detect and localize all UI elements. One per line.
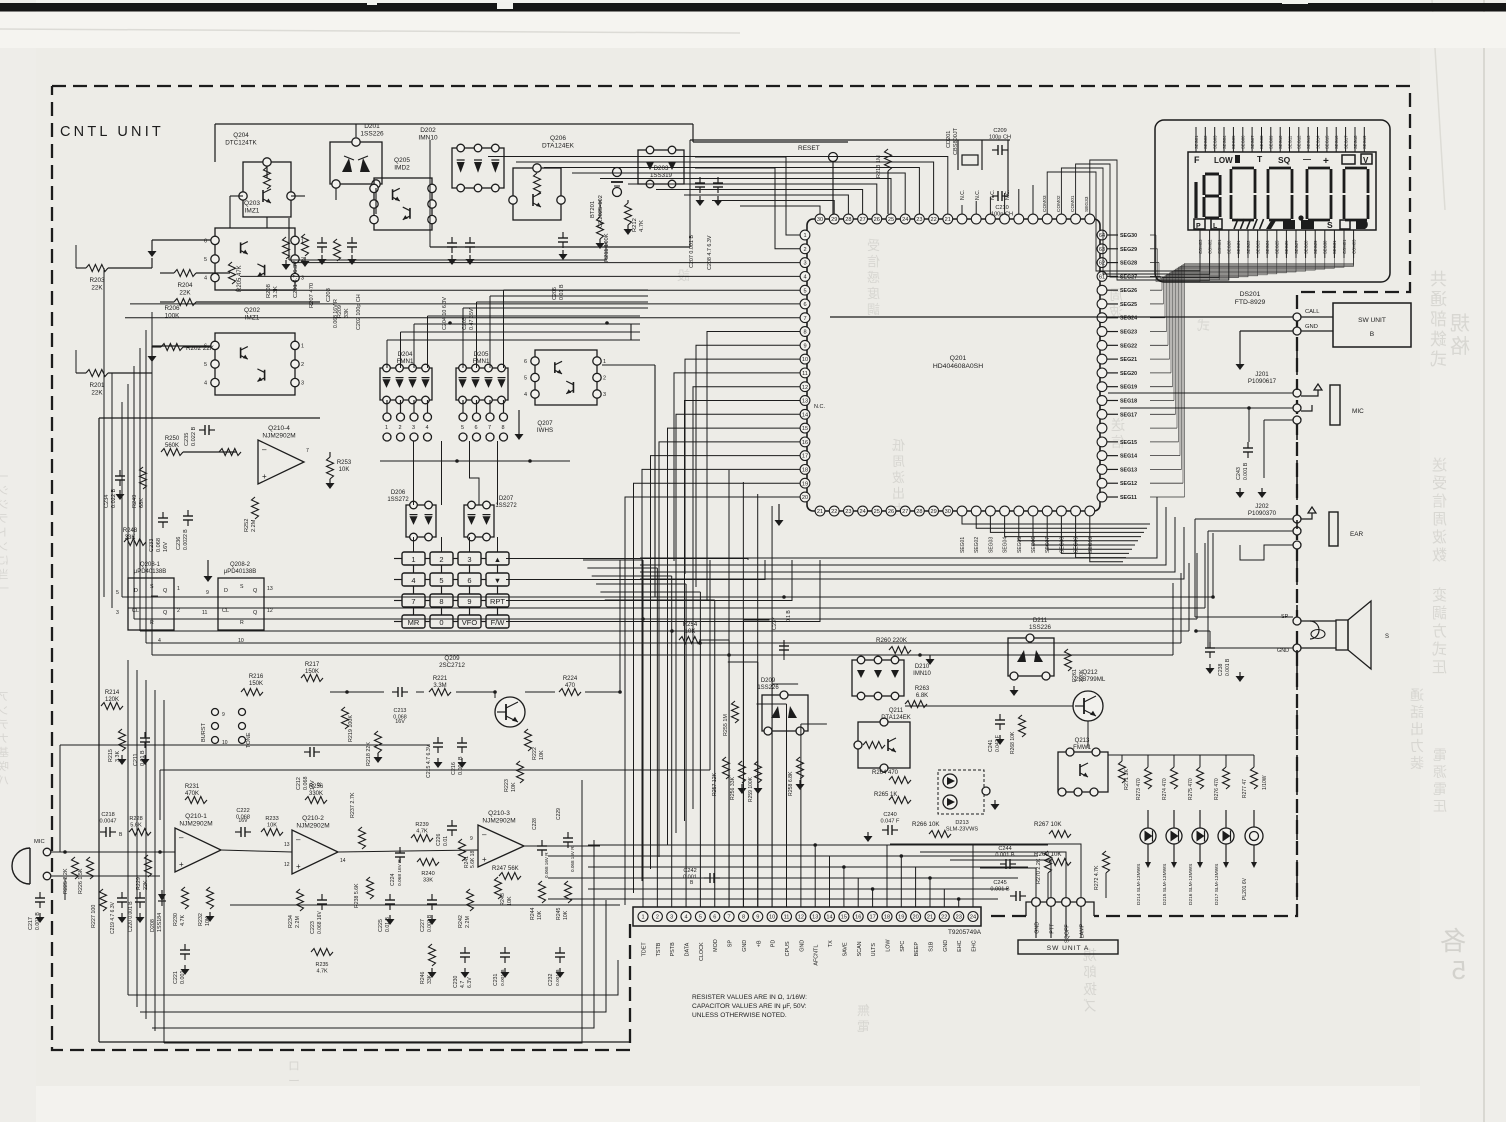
svg-text:12: 12 xyxy=(802,385,808,391)
svg-text:方: 方 xyxy=(1432,623,1447,640)
svg-text:62: 62 xyxy=(1099,261,1105,267)
IC Q201 top pins xyxy=(815,214,1095,224)
svg-text:調: 調 xyxy=(867,302,880,317)
svg-text:R258 6.8K: R258 6.8K xyxy=(788,771,794,796)
svg-text:LAMP: LAMP xyxy=(1080,923,1086,938)
capacitor C205 0.47 35V xyxy=(469,237,471,243)
transistor cluster Q205 IMD2 xyxy=(374,178,432,230)
diode pair D209 1SS226 xyxy=(762,695,808,731)
svg-text:15: 15 xyxy=(841,915,847,921)
svg-text:R233: R233 xyxy=(265,816,278,822)
svg-text:シ: シ xyxy=(0,485,9,497)
svg-text:0.022 B: 0.022 B xyxy=(191,426,197,446)
svg-text:—: — xyxy=(1303,155,1311,164)
svg-text:SEG03: SEG03 xyxy=(1213,135,1218,149)
svg-text:LOW: LOW xyxy=(1214,156,1233,165)
svg-text:2.2M: 2.2M xyxy=(251,519,257,532)
svg-text:D202: D202 xyxy=(420,127,436,134)
speaker SP xyxy=(1293,617,1301,625)
resistor R251 100K xyxy=(219,449,241,456)
svg-text:D204: D204 xyxy=(398,351,413,358)
transistor Q211 DTA124EK xyxy=(858,722,910,768)
svg-text:SAVE: SAVE xyxy=(842,942,848,956)
resistor R221 3.3M xyxy=(429,689,451,696)
svg-text:SP: SP xyxy=(728,940,734,948)
svg-text:ロ: ロ xyxy=(288,1059,300,1073)
svg-text:感: 感 xyxy=(867,270,880,285)
svg-text:SEG08: SEG08 xyxy=(1259,135,1264,149)
svg-text:9: 9 xyxy=(756,915,759,921)
svg-text:8: 8 xyxy=(742,915,745,921)
svg-text:23: 23 xyxy=(916,217,922,223)
svg-text:150K: 150K xyxy=(305,669,319,675)
svg-text:9: 9 xyxy=(803,343,806,349)
svg-text:R245: R245 xyxy=(556,907,562,920)
svg-text:Q: Q xyxy=(163,588,168,594)
capacitor C216 0.001 B xyxy=(461,737,463,743)
svg-text:0.001 B: 0.001 B xyxy=(1225,658,1231,676)
svg-text:C202 100p CH: C202 100p CH xyxy=(356,294,362,330)
svg-text:周: 周 xyxy=(1432,511,1447,528)
transistor Q209 2SC2712 xyxy=(495,697,525,727)
svg-text:R255 1M: R255 1M xyxy=(723,714,729,736)
svg-text:Q210-1: Q210-1 xyxy=(185,813,207,820)
svg-text:R246: R246 xyxy=(420,971,426,984)
svg-text:R202 22K: R202 22K xyxy=(186,345,215,352)
svg-text:C232: C232 xyxy=(548,973,554,986)
svg-text:10K: 10K xyxy=(539,750,545,760)
svg-text:2.2M: 2.2M xyxy=(465,916,471,928)
svg-text:SEG15: SEG15 xyxy=(1120,440,1137,446)
svg-text:力: 力 xyxy=(1410,738,1424,754)
transistor Q213 FMW1 xyxy=(1058,752,1108,792)
svg-text:R203: R203 xyxy=(89,277,105,284)
resistor R245 10K xyxy=(565,881,572,903)
svg-text:R265 1K: R265 1K xyxy=(874,792,897,798)
svg-text:3: 3 xyxy=(301,381,304,387)
svg-text:470K: 470K xyxy=(185,791,199,797)
svg-text:電: 電 xyxy=(1433,781,1447,797)
svg-text:3: 3 xyxy=(467,555,471,564)
svg-text:SEG18: SEG18 xyxy=(1120,398,1137,404)
svg-text:SEG23: SEG23 xyxy=(1255,240,1260,254)
capacitor C225 0.01 xyxy=(389,894,391,900)
svg-text:0.0047: 0.0047 xyxy=(99,819,116,825)
svg-text:P1090370: P1090370 xyxy=(1248,510,1277,517)
svg-text:22K: 22K xyxy=(179,289,191,296)
svg-text:格: 格 xyxy=(1450,335,1470,358)
svg-text:C240: C240 xyxy=(883,812,896,818)
svg-text:30: 30 xyxy=(817,217,823,223)
svg-text:C234: C234 xyxy=(104,495,110,508)
svg-text:R244: R244 xyxy=(530,907,536,920)
svg-text:0.01 B: 0.01 B xyxy=(559,284,565,300)
svg-text:電: 電 xyxy=(1433,747,1447,763)
svg-text:SEG09: SEG09 xyxy=(1269,135,1274,149)
wire SW unit A risers xyxy=(890,844,1081,898)
svg-text:7: 7 xyxy=(803,316,806,322)
svg-text:R252: R252 xyxy=(244,519,250,532)
svg-text:9: 9 xyxy=(206,590,209,596)
ground symbols top area xyxy=(321,255,323,259)
svg-text:Q212: Q212 xyxy=(1082,669,1098,676)
dashed CNTL UNIT border xyxy=(52,86,1410,1050)
svg-text:F: F xyxy=(1194,155,1200,165)
capacitor C211 0.01 B xyxy=(144,732,146,738)
svg-text:SEG11: SEG11 xyxy=(1120,495,1137,501)
svg-text:ン: ン xyxy=(0,705,9,717)
svg-text:R221: R221 xyxy=(433,676,448,682)
capacitor C219 4.7 6.3V xyxy=(121,892,123,898)
resistor R254 10K xyxy=(679,637,701,644)
svg-text:20: 20 xyxy=(912,915,918,921)
svg-text:RESISTER VALUES ARE IN Ω, 1/16: RESISTER VALUES ARE IN Ω, 1/16W: xyxy=(692,994,807,1001)
wire SP runs xyxy=(1195,616,1293,618)
svg-text:Q209: Q209 xyxy=(444,655,460,662)
svg-text:パ: パ xyxy=(0,774,9,787)
resistor R243 10K xyxy=(495,877,502,899)
svg-text:R212: R212 xyxy=(632,218,638,232)
LCD digit 8 #1 xyxy=(1232,167,1254,170)
svg-text:C229: C229 xyxy=(556,808,562,820)
diode D208 1SS184 xyxy=(158,894,166,901)
svg-text:18: 18 xyxy=(802,468,808,474)
svg-text:R223: R223 xyxy=(504,779,510,792)
svg-text:話: 話 xyxy=(1410,704,1424,720)
svg-text:8: 8 xyxy=(803,330,806,336)
svg-text:17: 17 xyxy=(869,915,875,921)
svg-text:16V: 16V xyxy=(163,542,169,552)
svg-text:Q211: Q211 xyxy=(889,708,904,714)
svg-text:圧: 圧 xyxy=(1433,798,1447,814)
svg-text:1: 1 xyxy=(385,425,388,431)
svg-text:R209: R209 xyxy=(337,305,343,318)
svg-text:μPD40138B: μPD40138B xyxy=(134,569,166,575)
svg-text:MIC: MIC xyxy=(1352,408,1364,415)
svg-text:SEG13: SEG13 xyxy=(1120,467,1137,473)
svg-text:2: 2 xyxy=(399,425,402,431)
svg-text:鉄: 鉄 xyxy=(1430,330,1447,349)
LEDs D214-D217 SLM-13MWS xyxy=(1136,810,1234,905)
svg-text:4.7: 4.7 xyxy=(460,981,466,988)
resistor R259 100K xyxy=(755,761,762,783)
svg-text:10K: 10K xyxy=(339,467,350,473)
resistor R248 33K xyxy=(124,539,146,546)
svg-text:ジ: ジ xyxy=(0,499,9,511)
svg-text:+: + xyxy=(482,855,487,864)
svg-text:TSTB: TSTB xyxy=(656,942,662,956)
svg-text:CALL: CALL xyxy=(1305,309,1320,315)
svg-text:J202: J202 xyxy=(1255,503,1269,510)
svg-text:R224: R224 xyxy=(563,676,578,682)
SW UNIT A box xyxy=(1018,940,1118,954)
svg-text:TX: TX xyxy=(828,940,834,947)
svg-text:AFCNTL: AFCNTL xyxy=(814,945,820,966)
svg-text:R253: R253 xyxy=(337,460,352,466)
resistor inside Q204 xyxy=(264,167,271,189)
svg-text:ン: ン xyxy=(0,541,9,553)
svg-text:共: 共 xyxy=(1430,270,1447,289)
op-amp Q210-4 NJM2902M xyxy=(258,440,304,484)
svg-text:4: 4 xyxy=(426,425,429,431)
svg-text:各: 各 xyxy=(1440,926,1466,956)
wires top-right COM pins xyxy=(1047,160,1229,280)
svg-text:0.068 16V R: 0.068 16V R xyxy=(570,846,575,872)
capacitor C213 0.068 16V xyxy=(392,691,398,693)
transistor Q204 DTC124TK xyxy=(243,162,291,217)
svg-text:源: 源 xyxy=(1433,764,1447,780)
svg-text:Q205: Q205 xyxy=(394,157,410,164)
wire LED bus xyxy=(1121,755,1123,761)
svg-text:22: 22 xyxy=(831,509,837,515)
capacitor C206 0.01 B xyxy=(562,232,564,238)
svg-text:変: 変 xyxy=(1432,587,1447,604)
svg-text:15: 15 xyxy=(802,426,808,432)
svg-text:R219 100K: R219 100K xyxy=(348,715,354,742)
svg-text:4: 4 xyxy=(411,576,415,585)
svg-text:8: 8 xyxy=(502,425,505,431)
svg-text:TDET: TDET xyxy=(642,942,648,957)
resistor R258 6.8K xyxy=(797,757,804,779)
svg-text:+: + xyxy=(179,860,184,869)
svg-text:22: 22 xyxy=(941,915,947,921)
resistor R244 10K xyxy=(539,881,546,903)
svg-text:SW UNIT A: SW UNIT A xyxy=(1047,945,1090,952)
svg-text:咲: 咲 xyxy=(0,759,9,773)
svg-text:16: 16 xyxy=(802,440,808,446)
svg-text:規: 規 xyxy=(1450,312,1470,335)
svg-text:SEG30: SEG30 xyxy=(1323,240,1328,254)
wire right mid links xyxy=(783,640,785,660)
svg-text:Q207: Q207 xyxy=(537,420,553,427)
svg-text:送: 送 xyxy=(1432,457,1447,474)
resistor R253 10K xyxy=(327,457,334,479)
svg-text:式: 式 xyxy=(1430,350,1447,369)
svg-text:63: 63 xyxy=(1099,247,1105,253)
capacitor C204 10 6.3V xyxy=(451,237,453,243)
svg-text:IMN10: IMN10 xyxy=(913,671,931,677)
LED pair D213 SLM-23VWS xyxy=(938,770,984,814)
svg-text:22K: 22K xyxy=(91,389,103,396)
resistor R203 22K xyxy=(86,265,108,272)
wire C209 C210 to IC xyxy=(1007,150,1009,196)
svg-text:C218: C218 xyxy=(101,812,114,818)
svg-text:μPD40138B: μPD40138B xyxy=(224,569,256,575)
svg-text:13: 13 xyxy=(267,586,273,592)
svg-text:1: 1 xyxy=(301,343,304,349)
svg-text:SEG26: SEG26 xyxy=(1120,288,1137,294)
wire MIC runs xyxy=(1108,392,1293,394)
svg-text:12: 12 xyxy=(267,608,273,614)
svg-text:低: 低 xyxy=(892,438,905,453)
svg-text:BEEP: BEEP xyxy=(914,942,920,957)
transistor cluster Q207 IWHS xyxy=(535,350,597,405)
svg-text:IMN10: IMN10 xyxy=(418,135,438,142)
D204 keypad column pins xyxy=(383,400,432,441)
svg-text:R247 56K: R247 56K xyxy=(492,866,519,872)
svg-text:IWHS: IWHS xyxy=(537,427,553,434)
GND line to SW UNIT B xyxy=(1293,327,1301,335)
svg-text:R263: R263 xyxy=(915,686,930,692)
svg-text:出: 出 xyxy=(892,486,905,501)
svg-text:S: S xyxy=(1327,220,1333,230)
svg-text:3: 3 xyxy=(603,392,606,398)
svg-text:GND: GND xyxy=(742,940,748,952)
svg-text:R228: R228 xyxy=(129,816,142,822)
svg-text:NJM2902M: NJM2902M xyxy=(296,823,329,830)
svg-text:BURST: BURST xyxy=(201,722,207,742)
svg-text:1: 1 xyxy=(411,555,415,564)
svg-text:6.8K: 6.8K xyxy=(916,693,928,699)
svg-text:1SS184: 1SS184 xyxy=(157,913,163,932)
svg-text:PSTB: PSTB xyxy=(670,942,676,956)
svg-text:PD: PD xyxy=(771,940,777,948)
svg-text:9: 9 xyxy=(470,836,473,842)
wire ribbon drops to lower buses xyxy=(640,497,1184,579)
diode D211 1SS226 xyxy=(1008,638,1054,676)
capacitor C221 0.001 B xyxy=(184,944,186,950)
svg-text:SLM-23VWS: SLM-23VWS xyxy=(946,827,979,833)
svg-text:3.3M: 3.3M xyxy=(433,683,446,689)
svg-text:CL: CL xyxy=(132,608,139,614)
svg-text:5: 5 xyxy=(1452,955,1466,985)
svg-text:COM02: COM02 xyxy=(1207,239,1212,254)
svg-text:12: 12 xyxy=(798,915,804,921)
svg-text:R276 470: R276 470 xyxy=(1214,778,1220,800)
scan black top bar xyxy=(0,3,1506,12)
resistor R241 5.6K xyxy=(459,839,466,861)
svg-text:▼: ▼ xyxy=(494,576,501,585)
svg-text:7: 7 xyxy=(488,425,491,431)
svg-text:R217: R217 xyxy=(305,662,320,668)
svg-text:S: S xyxy=(1385,634,1389,640)
svg-text:T9205749A: T9205749A xyxy=(948,929,982,936)
svg-text:式: 式 xyxy=(1432,641,1447,658)
svg-text:13: 13 xyxy=(284,842,290,848)
resistor R240 33K xyxy=(417,859,439,866)
svg-text:1: 1 xyxy=(803,233,806,239)
wire oscillator links xyxy=(957,140,959,150)
svg-text:29: 29 xyxy=(930,509,936,515)
svg-text:C228: C228 xyxy=(532,818,538,830)
resistor R237 2.7K xyxy=(359,827,366,849)
SW unit A pin bump xyxy=(1026,902,1094,916)
svg-text:1SS226: 1SS226 xyxy=(360,131,384,138)
svg-text:MIC: MIC xyxy=(34,839,45,845)
wire D201 links xyxy=(355,124,357,137)
wire audio long return xyxy=(160,769,710,771)
svg-text:0.047 F: 0.047 F xyxy=(881,819,901,825)
svg-text:R270 2.2K: R270 2.2K xyxy=(1036,858,1042,884)
svg-text:受: 受 xyxy=(1432,475,1447,492)
svg-text:SEG28: SEG28 xyxy=(1303,240,1308,254)
svg-text:SEG18: SEG18 xyxy=(1353,135,1358,149)
svg-text:2: 2 xyxy=(439,555,443,564)
svg-text:1/10W: 1/10W xyxy=(1262,775,1268,790)
svg-text:通: 通 xyxy=(1410,687,1424,703)
svg-text:ULTS: ULTS xyxy=(871,943,877,957)
resistor R255 1M xyxy=(732,701,739,723)
resistor R226 1.5K xyxy=(87,857,94,879)
svg-text:C223: C223 xyxy=(310,921,316,934)
connector J/P strip 24-pin xyxy=(633,907,981,926)
svg-text:560K: 560K xyxy=(165,443,179,449)
svg-text:14: 14 xyxy=(340,858,346,864)
svg-text:度: 度 xyxy=(867,286,880,301)
svg-text:RPT: RPT xyxy=(490,597,505,606)
svg-text:R250: R250 xyxy=(165,436,180,442)
svg-text:Q208-1: Q208-1 xyxy=(140,562,161,568)
svg-text:波: 波 xyxy=(892,470,905,485)
svg-text:27: 27 xyxy=(859,217,865,223)
svg-text:21: 21 xyxy=(817,509,823,515)
svg-text:SEG02: SEG02 xyxy=(974,537,980,553)
capacitor C228 0.068 16V R xyxy=(541,840,543,846)
svg-text:C209: C209 xyxy=(993,128,1006,134)
svg-text:5: 5 xyxy=(439,576,443,585)
svg-text:N.C.: N.C. xyxy=(814,404,825,410)
svg-text:R272 4.7K: R272 4.7K xyxy=(1094,865,1100,890)
resistor R232 10K xyxy=(207,887,214,909)
capacitor C237 0.1 B xyxy=(783,640,785,646)
wire left verticals xyxy=(103,268,105,597)
svg-text:基: 基 xyxy=(0,746,9,759)
svg-text:3: 3 xyxy=(412,425,415,431)
LCD decimal point xyxy=(1298,215,1303,220)
capacitor C217 0.001 B xyxy=(39,892,41,898)
resistor R228 5.6K xyxy=(129,829,151,836)
resistor R222 10K xyxy=(525,729,532,751)
capacitor C215 4.7 6.3V xyxy=(437,737,439,743)
svg-text:1SS272: 1SS272 xyxy=(495,503,517,509)
resistor R264 470 xyxy=(889,777,911,784)
resistor R206 100K xyxy=(174,299,196,306)
resistor R216 150K xyxy=(241,689,263,696)
svg-text:D213: D213 xyxy=(955,820,968,826)
svg-text:R275 470: R275 470 xyxy=(1188,778,1194,800)
svg-text:SEG04: SEG04 xyxy=(1222,135,1227,149)
svg-text:27: 27 xyxy=(902,509,908,515)
svg-text:13: 13 xyxy=(802,399,808,405)
svg-text:FMN1: FMN1 xyxy=(473,358,490,365)
svg-text:ー: ー xyxy=(288,1074,300,1088)
svg-text:FMW1: FMW1 xyxy=(1073,745,1091,751)
svg-text:R256 33K: R256 33K xyxy=(730,776,736,800)
svg-text:24: 24 xyxy=(902,217,908,223)
svg-text:4.7K: 4.7K xyxy=(639,220,645,232)
svg-text:EHC: EHC xyxy=(972,940,978,951)
svg-text:SW UNIT: SW UNIT xyxy=(1358,317,1386,324)
capacitor C233 0.068 16V xyxy=(162,512,164,518)
svg-text:6.3V: 6.3V xyxy=(467,977,473,988)
resistor R235 4.7K xyxy=(311,949,333,956)
svg-text:SEG30: SEG30 xyxy=(1120,233,1137,239)
svg-text:5: 5 xyxy=(524,376,527,382)
CALL line to SW UNIT B xyxy=(1293,313,1301,321)
svg-text:調: 調 xyxy=(1432,605,1447,622)
wire Q209 links xyxy=(330,691,384,693)
svg-text:21: 21 xyxy=(945,217,951,223)
ground near IC pin 20 xyxy=(778,504,780,516)
svg-text:部: 部 xyxy=(1430,310,1447,329)
svg-text:2: 2 xyxy=(603,376,606,382)
svg-text:SEG13: SEG13 xyxy=(1306,135,1311,149)
svg-text:SEG07: SEG07 xyxy=(1250,135,1255,149)
svg-text:28: 28 xyxy=(916,509,922,515)
svg-text:DS201: DS201 xyxy=(1240,291,1261,298)
LCD digit small 8 xyxy=(1205,173,1219,176)
svg-text:SEG12: SEG12 xyxy=(1120,481,1137,487)
